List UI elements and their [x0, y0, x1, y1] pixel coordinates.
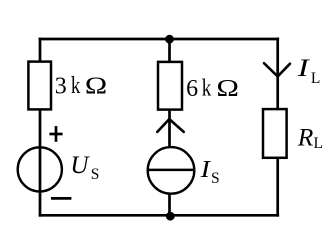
- svg-text:U: U: [70, 152, 90, 179]
- svg-text:6: 6: [186, 76, 198, 102]
- svg-text:I: I: [200, 157, 212, 183]
- svg-text:k: k: [202, 76, 212, 102]
- svg-text:3: 3: [55, 74, 67, 100]
- svg-text:k: k: [71, 73, 81, 99]
- svg-text:S: S: [211, 170, 220, 187]
- svg-text:L: L: [311, 70, 320, 87]
- svg-text:Ω: Ω: [216, 76, 239, 102]
- svg-text:Ω: Ω: [85, 74, 107, 100]
- svg-text:S: S: [91, 166, 100, 183]
- svg-text:L: L: [314, 135, 323, 152]
- svg-text:R: R: [297, 122, 314, 151]
